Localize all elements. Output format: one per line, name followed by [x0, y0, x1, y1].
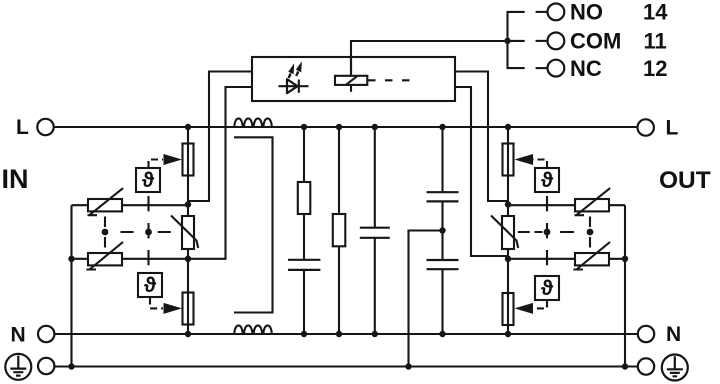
varistor RV6 (right middle) — [491, 216, 518, 250]
capacitor C4 — [427, 260, 459, 269]
junction N line x508 — [505, 331, 511, 337]
terminal L left — [37, 119, 53, 135]
varistor RV4 (right upper) — [575, 188, 611, 215]
relay terminal NC — [548, 60, 565, 77]
svg-text:COM: COM — [570, 29, 621, 54]
svg-text:ϑ: ϑ — [541, 169, 554, 192]
wire row B right — [508, 258, 625, 260]
wire L line — [54, 126, 638, 128]
node earth connector right — [622, 256, 628, 262]
wire row A right — [508, 204, 625, 206]
arrow T1 to F1 — [149, 154, 183, 168]
arrow T4 to F4 — [515, 301, 548, 314]
wire right protection branch lower — [507, 249, 509, 334]
dashed thermal link left vertical varistor — [104, 217, 106, 248]
wire left protection branch lower — [187, 249, 189, 334]
fuse F2 (left bottom thermal disconnect) — [183, 293, 194, 325]
node earth connector left — [68, 256, 74, 262]
fuse F1 (left top thermal disconnect) — [183, 144, 194, 176]
wire stub NO — [536, 11, 548, 13]
wire row A left — [72, 204, 189, 206]
dashed link junction right 1 — [544, 229, 551, 236]
capacitor C3 — [427, 192, 459, 201]
svg-text:N: N — [666, 323, 681, 346]
ground symbol left — [5, 354, 31, 380]
varistor RV5 (right lower) — [573, 242, 610, 270]
wire monitor right B — [455, 87, 508, 256]
thermal sensor T4 (right bottom) — [535, 276, 559, 300]
wire right protection branch upper — [507, 127, 509, 216]
wire stub NC — [536, 67, 548, 69]
resistor R1 — [298, 182, 311, 214]
node B left — [185, 256, 191, 262]
junction N line x188 — [185, 331, 191, 337]
svg-text:14: 14 — [643, 0, 668, 25]
varistor RV3 (left middle) — [171, 216, 198, 250]
inductor L1 (top choke winding) — [234, 118, 271, 127]
svg-text:NO: NO — [570, 0, 603, 25]
relay terminal NO — [548, 4, 565, 21]
relay coil K1 — [335, 57, 412, 92]
dashed link junction left 2 — [145, 229, 152, 236]
wire right earth connector — [624, 205, 626, 366]
svg-text:L: L — [16, 116, 29, 139]
junction L line x508 — [505, 124, 511, 130]
junction N line x339 — [336, 331, 342, 337]
junction COM bracket — [504, 38, 510, 44]
wire PE line — [54, 365, 637, 367]
junction N line x304 — [301, 331, 307, 337]
varistor RV1 (left upper) — [88, 188, 124, 215]
branch R1+C1 wire — [303, 127, 305, 334]
wire relay coil to COM — [351, 41, 508, 76]
thermal sensor T3 (right top) — [535, 168, 559, 192]
wire row B left — [72, 258, 189, 260]
junction L line x374.8 — [372, 124, 378, 130]
capacitor C2 — [360, 228, 390, 238]
svg-text:12: 12 — [643, 56, 667, 81]
junction L line x188 — [185, 124, 191, 130]
indicator box U1 — [252, 57, 455, 101]
LED D1 — [279, 61, 309, 93]
svg-text:ϑ: ϑ — [142, 169, 155, 192]
svg-text:ϑ: ϑ — [541, 277, 554, 300]
inductor L2 (bottom choke winding) — [234, 325, 271, 334]
terminal PE right — [638, 358, 654, 374]
wire N line — [54, 333, 637, 335]
svg-text:IN: IN — [2, 164, 29, 194]
node A right — [505, 201, 511, 207]
resistor R2 — [333, 214, 346, 246]
branch C2 wire — [374, 127, 376, 334]
junction N line x374.8 — [372, 331, 378, 337]
junction PE line x408.5 — [405, 363, 411, 369]
fuse F4 (right bottom thermal disconnect) — [503, 293, 514, 325]
svg-text:L: L — [666, 117, 679, 140]
junction PE line x625 — [622, 363, 628, 369]
dashed thermal link left vertical theta — [147, 196, 149, 265]
node A left — [185, 201, 191, 207]
junction N line x442.5 — [439, 331, 445, 337]
wire monitor left B — [188, 87, 252, 259]
thermal sensor T2 (left bottom) — [138, 273, 162, 297]
dashed thermal link right vertical theta — [546, 196, 548, 265]
dashed link junction left 1 — [102, 229, 109, 236]
terminal N left — [38, 326, 54, 342]
dashed thermal link right horizontal — [518, 231, 574, 233]
fuse F3 (right top thermal disconnect) — [503, 144, 514, 176]
junction L line x442.5 — [439, 124, 445, 130]
arrow T2 to F2 — [150, 298, 182, 314]
wire C3-C4 midpoint to PE — [409, 231, 443, 367]
wire monitor left A — [188, 72, 252, 202]
dashed link junction right 2 — [587, 229, 594, 236]
choke core link — [234, 137, 273, 312]
junction PE line x71.5 — [68, 363, 74, 369]
wire left protection branch upper — [187, 127, 189, 216]
wire stub COM — [536, 40, 548, 42]
svg-text:OUT: OUT — [659, 167, 711, 194]
wire monitor right A — [455, 72, 508, 202]
branch C3+C4 wire — [441, 127, 443, 334]
svg-text:ϑ: ϑ — [144, 274, 157, 297]
junction L line x339 — [336, 124, 342, 130]
ground symbol right — [662, 355, 688, 381]
capacitor C1 — [288, 260, 320, 270]
branch R2 wire — [338, 127, 340, 334]
wire left earth connector — [70, 205, 72, 366]
svg-text:NC: NC — [570, 56, 602, 81]
junction C3-C4 midpoint — [439, 227, 445, 233]
wire relay bracket — [508, 12, 525, 68]
dashed thermal link right vertical varistor — [589, 217, 591, 248]
varistor RV2 (left lower) — [86, 242, 123, 270]
terminal N right — [638, 326, 654, 342]
terminal PE left — [38, 358, 54, 374]
junction L line x304 — [301, 124, 307, 130]
arrow T3 to F3 — [515, 154, 548, 168]
dashed thermal link left horizontal — [121, 231, 171, 233]
relay terminal COM — [548, 33, 565, 50]
terminal L right — [638, 119, 654, 135]
node B right — [505, 256, 511, 262]
svg-text:N: N — [11, 323, 26, 346]
thermal sensor T1 (left top) — [136, 168, 160, 192]
svg-text:11: 11 — [644, 29, 667, 54]
